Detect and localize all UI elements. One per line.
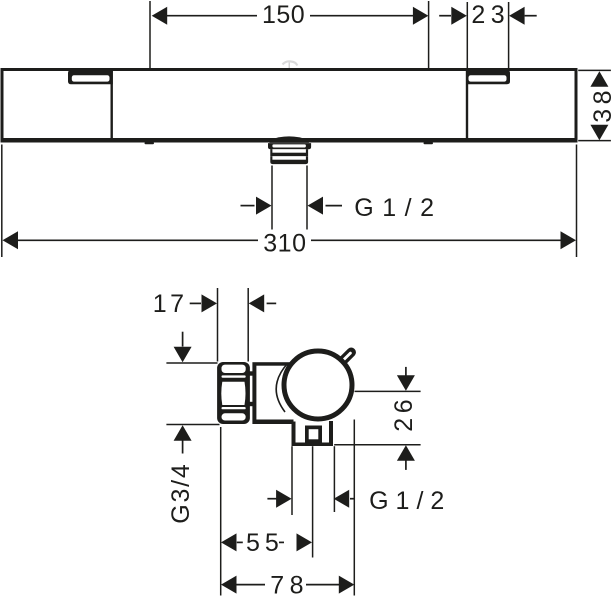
svg-text:G3/4: G3/4 (167, 462, 195, 523)
svg-text:310: 310 (263, 230, 306, 258)
svg-text:78: 78 (270, 571, 309, 599)
svg-text:26: 26 (390, 395, 418, 432)
svg-text:150: 150 (262, 1, 305, 29)
svg-text:55: 55 (246, 529, 284, 557)
svg-text:23: 23 (471, 1, 510, 29)
svg-text:G1/2: G1/2 (369, 487, 451, 515)
svg-text:G1/2: G1/2 (354, 194, 442, 222)
svg-text:17: 17 (153, 290, 188, 318)
svg-text:38: 38 (589, 86, 616, 123)
